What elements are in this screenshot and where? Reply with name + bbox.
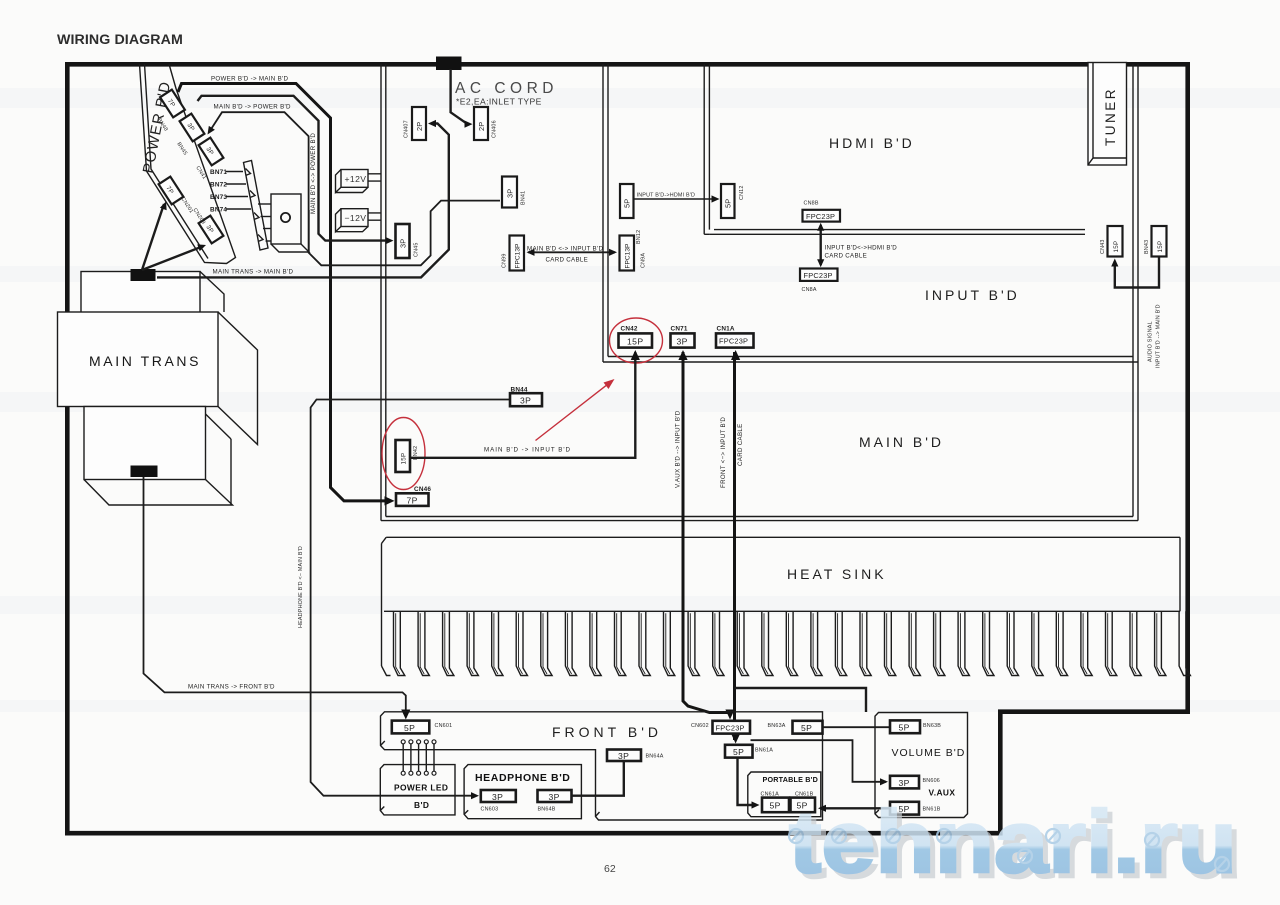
svg-text:FRONT <−> INPUT B'D: FRONT <−> INPUT B'D (720, 417, 727, 488)
svg-text:HEADPHONE B'D: HEADPHONE B'D (475, 772, 570, 784)
wire: main trans to CN203 (arrow) (142, 246, 204, 270)
svg-text:CN99: CN99 (502, 253, 508, 268)
arrow into CN45 (386, 237, 394, 244)
wires BN71-74 to ribbon (226, 172, 251, 210)
svg-text:AC CORD: AC CORD (455, 80, 558, 97)
connector BN63A 5P (793, 721, 823, 734)
svg-text:MAIN B'D <-> POWER B'D: MAIN B'D <-> POWER B'D (310, 133, 317, 214)
wire BN61B to CN61B (821, 807, 889, 809)
connector CN601 5P (392, 721, 430, 734)
svg-text:CN46: CN46 (414, 486, 431, 493)
svg-text:CN601: CN601 (435, 723, 453, 729)
connector CN12 5P (721, 184, 735, 218)
svg-text:5P: 5P (770, 801, 781, 811)
svg-text:+12V: +12V (345, 174, 367, 184)
svg-text:3P: 3P (399, 239, 408, 248)
svg-text:3P: 3P (506, 189, 515, 198)
connector BN44 3P (510, 393, 542, 406)
svg-text:15P: 15P (1157, 241, 1164, 253)
connector CN203 3P (199, 216, 224, 244)
wire loop B: BN45 to CN45 (198, 96, 389, 241)
svg-text:tehnari.ru: tehnari.ru (789, 792, 1237, 891)
connector CN602 FPC23P (713, 721, 751, 734)
svg-text:CN12: CN12 (739, 185, 745, 200)
connector BN64B 3P (538, 790, 572, 802)
connector CN9A FPC13P (620, 236, 635, 271)
svg-text:FPC23P: FPC23P (719, 337, 748, 346)
+12V stubs (368, 174, 381, 181)
ribbon strip (244, 161, 269, 251)
svg-text:5P: 5P (724, 199, 733, 208)
connector CN1A FPC23P (716, 333, 754, 347)
svg-text:CN603: CN603 (481, 807, 499, 813)
wire BN64B to BN64A (572, 762, 624, 796)
svg-text:BN12: BN12 (636, 230, 642, 244)
svg-text:VOLUME B'D: VOLUME B'D (892, 747, 966, 759)
svg-text:CN42: CN42 (621, 326, 638, 333)
svg-text:3P: 3P (549, 792, 560, 802)
outer border frame (thick, with bottom-right notch) (67, 64, 1187, 835)
svg-text:MAIN B'D <-> INPUT B'D: MAIN B'D <-> INPUT B'D (527, 246, 603, 253)
svg-text:BN64B: BN64B (538, 807, 556, 813)
connector BN42 15P (396, 440, 411, 472)
-12V stubs (368, 213, 381, 220)
svg-text:15P: 15P (401, 453, 408, 465)
svg-text:BN63A: BN63A (768, 723, 786, 729)
svg-text:3P: 3P (492, 792, 503, 802)
svg-text:2P: 2P (415, 122, 424, 131)
HDMI B'D box edges (703, 64, 705, 234)
arrow into CN407 (428, 120, 436, 127)
svg-text:CARD CABLE: CARD CABLE (546, 257, 589, 264)
svg-text:V.AUX B'D --> INPUT B'D: V.AUX B'D --> INPUT B'D (675, 410, 682, 488)
connector BN41 3P (502, 177, 517, 208)
arrow into CN46 (385, 496, 395, 505)
svg-text:CN406: CN406 (492, 120, 498, 138)
svg-text:CN8A: CN8A (802, 287, 817, 293)
svg-text:MAIN B'D -> POWER B'D: MAIN B'D -> POWER B'D (214, 104, 291, 111)
branch to VOLUME B'D top (735, 688, 867, 712)
main trans 3D upper (200, 272, 224, 313)
svg-text:MAIN TRANS -> FRONT B'D: MAIN TRANS -> FRONT B'D (188, 684, 275, 691)
connector CN201 7P (159, 177, 184, 205)
svg-text:INPUT B'D: INPUT B'D (925, 287, 1020, 303)
heat sink fins (394, 611, 1191, 675)
wire BN12 to CN12 (634, 198, 715, 200)
svg-text:3P: 3P (520, 395, 531, 405)
svg-text:CN602: CN602 (691, 723, 709, 729)
svg-text:5P: 5P (733, 747, 744, 757)
svg-text:5P: 5P (899, 723, 910, 733)
svg-text:FPC13P: FPC13P (625, 243, 632, 269)
connector BN61A 5P (725, 745, 753, 758)
connector BN63B 5P (890, 720, 920, 733)
wire BN61A to CN61A (738, 758, 756, 805)
wire: main trans to CN201 (arrow) (142, 204, 164, 270)
svg-text:BN606: BN606 (923, 778, 940, 784)
connector CN61B 5P (791, 798, 816, 813)
svg-text:CN9A: CN9A (641, 253, 647, 268)
red arrow annotation (536, 382, 612, 441)
svg-text:BN73: BN73 (210, 194, 227, 201)
ribbon chevrons (246, 169, 264, 242)
svg-text:FPC23P: FPC23P (804, 271, 833, 280)
svg-text:POWER B'D -> MAIN B'D: POWER B'D -> MAIN B'D (211, 76, 288, 83)
connector BN61B 5P (890, 802, 919, 815)
arrow into CN603 (471, 792, 479, 799)
main trans upper core band (81, 272, 200, 313)
INPUT B'D left edge (double vertical) (602, 64, 604, 362)
svg-text:62: 62 (604, 863, 616, 875)
connector CN43 15P (1108, 226, 1123, 257)
svg-text:INPUT B'D->HDMI B'D: INPUT B'D->HDMI B'D (637, 193, 696, 199)
red ellipse around CN42 (610, 318, 663, 363)
connector BN43 15P (1152, 226, 1167, 257)
wire BN43 to CN43 (1115, 257, 1159, 288)
svg-text:HEADPHONE B'D <− MAIN B'D: HEADPHONE B'D <− MAIN B'D (298, 546, 304, 628)
svg-text:INPUT B'D --> MAIN B'D: INPUT B'D --> MAIN B'D (1156, 304, 1162, 368)
connector CN603 3P (481, 790, 516, 802)
svg-text:5P: 5P (404, 723, 415, 733)
TUNER box (1088, 63, 1127, 166)
connector CN45 3P (396, 224, 410, 258)
connector BN48 7P on power board (160, 90, 185, 118)
connector BN12 5P (620, 184, 634, 218)
regulator body (271, 194, 309, 252)
svg-text:TUNER: TUNER (1103, 87, 1118, 146)
svg-text:FPC13P: FPC13P (515, 243, 522, 269)
HEADPHONE B'D box (464, 765, 581, 819)
front board outline (L-shape) (381, 712, 823, 820)
wire CN602 area to BN606 (751, 740, 887, 782)
svg-text:15P: 15P (1113, 241, 1120, 253)
POWER LED B'D box (380, 765, 455, 815)
main trans lower 3D (84, 414, 233, 505)
MAIN B'D left bus (double vertical) (380, 64, 382, 521)
wire from AC pad to CN406 (451, 69, 468, 124)
svg-text:7P: 7P (407, 495, 418, 505)
main trans body face (58, 312, 219, 407)
INPUT B'D bottom edge (double horizontal) (603, 361, 1138, 363)
svg-text:*E2,EA:INLET TYPE: *E2,EA:INLET TYPE (456, 97, 542, 107)
MAIN B'D bottom edge (double horizontal) (381, 520, 1138, 522)
connector CN8A FPC23P (800, 269, 838, 281)
wire BN44 to CN603 (headphone) (311, 400, 509, 796)
svg-text:BN74: BN74 (210, 207, 227, 214)
svg-text:CARD CABLE: CARD CABLE (825, 253, 868, 260)
svg-text:BN72: BN72 (210, 182, 227, 189)
AC cord entry pad on top border (436, 57, 462, 71)
HEAT SINK body (382, 537, 1181, 675)
svg-text:3P: 3P (899, 778, 910, 788)
main trans bottom pad (131, 466, 158, 478)
wire BN63A to BN63B (823, 726, 890, 728)
power board outline (140, 64, 236, 264)
svg-text:MAIN B'D: MAIN B'D (859, 434, 944, 450)
svg-text:MAIN TRANS -> MAIN B'D: MAIN TRANS -> MAIN B'D (213, 269, 294, 276)
connector CN406 2P (474, 107, 488, 140)
svg-text:CN43: CN43 (1100, 239, 1106, 254)
svg-text:CN45: CN45 (414, 242, 420, 257)
svg-text:CN8B: CN8B (804, 201, 819, 207)
+12V box (336, 170, 369, 193)
VOLUME B'D box (875, 713, 968, 818)
wire CN8B to CN8A (double arrow) (820, 225, 822, 265)
connector CN407 2P (412, 107, 426, 140)
PORTABLE B'D box (748, 772, 821, 817)
svg-text:15P: 15P (627, 336, 644, 346)
svg-text:BN64A: BN64A (646, 754, 664, 760)
main trans body 3D (218, 312, 258, 445)
MAIN B'D right edge (double vertical) (1137, 64, 1139, 521)
svg-text:MAIN B'D -> INPUT B'D: MAIN B'D -> INPUT B'D (484, 447, 571, 454)
connector CN46 7P (396, 493, 429, 506)
svg-text:CN1A: CN1A (717, 326, 735, 333)
main trans lower core band (84, 407, 206, 480)
svg-text:FPC23P: FPC23P (716, 723, 745, 732)
wire CN1A to BN61A / volume (card cable) (733, 352, 736, 740)
connector CN41 3P (199, 138, 224, 166)
svg-text:BN43: BN43 (1144, 240, 1150, 254)
svg-text:5P: 5P (801, 723, 812, 733)
svg-text:3P: 3P (618, 751, 629, 761)
svg-text:POWER LED: POWER LED (394, 783, 448, 793)
regulator hole (281, 213, 290, 222)
connector BN64A 3P (607, 750, 641, 762)
connector CN99 FPC13P (510, 236, 525, 271)
svg-text:PORTABLE B'D: PORTABLE B'D (763, 775, 818, 784)
main trans top pad (131, 269, 156, 281)
svg-text:5P: 5P (623, 199, 632, 208)
svg-text:WIRING DIAGRAM: WIRING DIAGRAM (57, 32, 183, 48)
wire BN42 to CN42 (411, 352, 636, 458)
connector CN61A 5P (762, 798, 789, 813)
svg-text:HDMI B'D: HDMI B'D (829, 135, 915, 151)
wire CN99 to CN9A card cable (528, 251, 615, 253)
connector CN8B FPC23P (803, 210, 841, 222)
connector BN45 3P (180, 114, 205, 142)
connector CN71 3P (671, 333, 695, 347)
wires ribbon to regulator (258, 204, 271, 241)
connector BN606 3P (890, 776, 919, 789)
svg-text:CN71: CN71 (671, 326, 688, 333)
wire MAIN TRANS to CN601 (144, 477, 406, 713)
arrow into CN41 (204, 126, 214, 137)
svg-text:BN41: BN41 (521, 191, 527, 205)
svg-text:HEAT SINK: HEAT SINK (787, 566, 887, 582)
wire loop C: CN41 to BN41 (210, 112, 501, 265)
svg-text:INPUT B'D<->HDMI B'D: INPUT B'D<->HDMI B'D (825, 245, 898, 252)
svg-text:−12V: −12V (345, 213, 367, 223)
svg-text:2P: 2P (477, 122, 486, 131)
svg-text:FPC23P: FPC23P (806, 212, 835, 221)
wire loop A: BN48 to CN46 (thick) (178, 84, 389, 501)
svg-text:3P: 3P (677, 336, 688, 346)
svg-text:BN61A: BN61A (755, 748, 773, 754)
power led pin wires with terminals (403, 743, 434, 773)
svg-text:CARD CABLE: CARD CABLE (737, 423, 744, 466)
wire CN71 to CN602 (V.AUX) (683, 352, 728, 714)
red ellipse around BN42 (382, 418, 425, 490)
-12V box (336, 209, 369, 232)
svg-text:B'D: B'D (414, 800, 429, 810)
svg-text:AUDIO SIGNAL: AUDIO SIGNAL (1148, 321, 1154, 362)
svg-text:BN71: BN71 (210, 169, 227, 176)
wire MAIN TRANS to CN407 (157, 124, 449, 278)
svg-text:BN63B: BN63B (923, 723, 941, 729)
svg-text:MAIN TRANS: MAIN TRANS (89, 353, 201, 369)
svg-text:FRONT B'D: FRONT B'D (552, 724, 662, 740)
connector CN42 15P (619, 333, 653, 347)
svg-text:CN407: CN407 (404, 120, 410, 138)
